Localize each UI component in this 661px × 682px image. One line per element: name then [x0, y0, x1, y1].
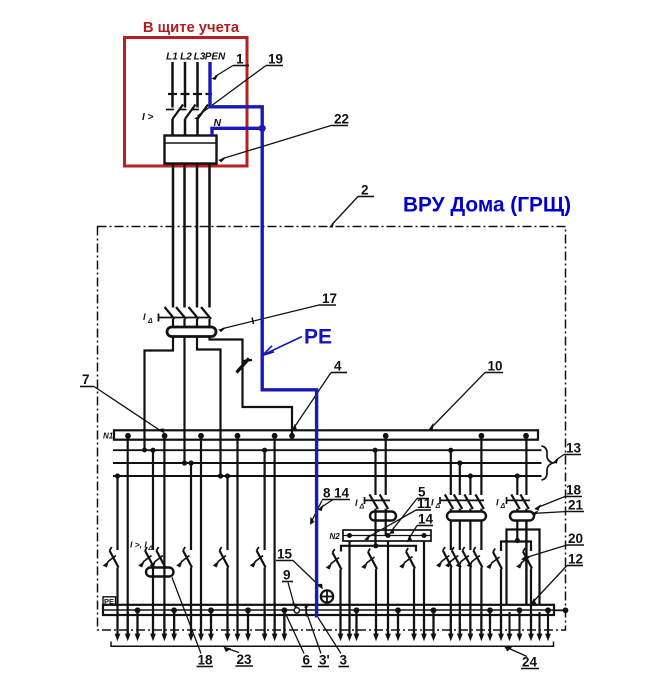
phase line L2: [113, 462, 542, 464]
feeder group 1 phase wire: [116, 476, 118, 634]
main RCD pole 3: [189, 307, 199, 319]
wire PEN blue riser: [210, 62, 317, 618]
disconnect tick L2: [181, 93, 190, 95]
feeder group 2 PE wire: [173, 610, 175, 634]
PE bond to cabinet: [554, 607, 568, 613]
feeder group 5 PE wire: [283, 610, 285, 634]
group E sub-panel enclosure: [507, 530, 540, 606]
callout 9: [282, 568, 297, 610]
svg-text:L2: L2: [180, 52, 192, 63]
svg-text:22: 22: [334, 112, 349, 127]
group D wires down: [451, 568, 482, 635]
callout 6: [286, 614, 313, 668]
svg-text:17: 17: [322, 291, 337, 306]
terminal circle node 9: [294, 608, 299, 613]
callout 11: [364, 496, 432, 541]
N2 feeder 1 N wire: [348, 541, 350, 634]
group N2 RCD pole 2: [380, 494, 389, 509]
svg-text:20: 20: [568, 531, 583, 546]
node label PE: [304, 326, 332, 349]
svg-text:18: 18: [566, 483, 582, 498]
callout 14b: [407, 512, 434, 543]
N2 feeder 1 PE wire: [355, 610, 357, 634]
group E RCD phase wire: [516, 476, 518, 512]
svg-text:15: 15: [277, 547, 293, 562]
svg-text:13: 13: [566, 441, 582, 456]
breaker QF pole 3: [191, 105, 208, 120]
svg-text:9: 9: [283, 568, 291, 583]
svg-text:Δ: Δ: [359, 504, 365, 511]
feeder group 3 phase wire: [190, 463, 192, 634]
junction dots on N1: [125, 433, 529, 439]
busbar PE label box: [103, 597, 116, 606]
feeder group 2 RCD core oval: [146, 568, 174, 577]
energy meter Wh: [165, 136, 217, 164]
wire funnel L3: [197, 337, 223, 479]
group E output wires: [501, 569, 531, 635]
bonding tick node 3p: [304, 605, 308, 617]
callout 21: [531, 498, 584, 517]
node label L3: [194, 52, 206, 63]
group E RCD poles: [511, 494, 529, 509]
group E phase split branches: [501, 542, 531, 552]
N2 feeder 1 phase wire: [339, 570, 341, 635]
callout 17: [218, 291, 337, 332]
busbar PE: [103, 605, 554, 615]
N2 feeder 2 breaker: [361, 549, 377, 570]
phase line L3: [113, 475, 542, 477]
group N2 RCD label Id: [355, 498, 365, 511]
svg-text:11: 11: [417, 496, 432, 511]
disconnect tick L3: [193, 93, 202, 95]
brace for phase group: [542, 446, 554, 480]
callout 12: [530, 552, 583, 606]
callout 18b: [534, 483, 582, 511]
svg-text:21: 21: [568, 498, 584, 513]
svg-text:ВРУ Дома (ГРЩ): ВРУ Дома (ГРЩ): [403, 194, 571, 217]
feeder group 2 breaker pole 2: [150, 547, 166, 568]
node label N2: [330, 532, 341, 541]
main RCD pole 2: [176, 307, 186, 319]
feeder group 4 phase wire: [226, 476, 228, 634]
feeder group 2 N wire: [163, 433, 165, 634]
feeder group 2 phase wire: [152, 450, 154, 634]
busbar N1: [114, 430, 538, 439]
group N2 RCD pole 1: [370, 494, 379, 509]
group N2 RCD phase wire: [373, 450, 378, 548]
group D breakers: [436, 547, 482, 568]
feeder group 5 phase wire: [264, 450, 266, 634]
feeder group 5 N wire: [274, 433, 276, 634]
metering panel red enclosure: [125, 38, 248, 167]
feeder group 1 breaker: [103, 547, 119, 568]
wire L2 incoming: [184, 62, 187, 108]
feeder group 3 breaker: [176, 547, 192, 568]
callout 3: [318, 618, 349, 668]
main RCD trip bar: [159, 314, 211, 322]
group E RCD core oval: [510, 512, 534, 521]
PE pointer arrow blue: [263, 337, 303, 356]
svg-text:Δ: Δ: [147, 318, 153, 325]
svg-text:2: 2: [361, 183, 369, 198]
group D RCD core oval: [447, 512, 486, 521]
wire N branch blue: [212, 128, 262, 135]
callout 15: [276, 547, 323, 590]
svg-text:Δ: Δ: [500, 503, 506, 510]
feeder group 3 PE wire: [210, 610, 212, 634]
N2 feeder 3 N wire: [423, 541, 425, 634]
svg-text:18: 18: [198, 653, 214, 668]
wire funnel L1: [142, 337, 173, 453]
svg-text:19: 19: [268, 52, 283, 67]
svg-text:14: 14: [418, 512, 434, 527]
feeder group 2 label I>,Id: [130, 540, 154, 553]
wire L1 incoming: [171, 62, 174, 108]
group D wires to core: [451, 509, 482, 512]
callout 7: [80, 372, 165, 433]
N2 feeder 2 phase wire: [375, 569, 377, 634]
N2 feeder 2 PE wire: [397, 610, 399, 634]
group D 3ph RCD wires: [451, 433, 482, 495]
svg-text:3: 3: [340, 653, 348, 668]
callout 14a: [318, 486, 350, 512]
group N2 RCD core oval: [370, 512, 396, 521]
N2 feeder 2 N wire: [387, 541, 389, 634]
group D RCD poles: [445, 494, 484, 509]
svg-text:24: 24: [522, 655, 538, 670]
junction PEN split: [259, 125, 266, 132]
callout 1: [212, 52, 250, 81]
callout 4: [291, 359, 347, 432]
N2 feeder 3 phase wire: [413, 569, 415, 635]
svg-text:23: 23: [237, 652, 253, 667]
main RCD label Idelta: [143, 312, 153, 325]
group D trip bar: [440, 497, 484, 504]
disconnect tick L1: [168, 93, 177, 95]
outgoing cables bracket: [111, 642, 554, 647]
breaker QF label I>: [142, 112, 154, 123]
callout 18: [172, 578, 213, 668]
wire meter outputs to RCD: [173, 164, 210, 308]
busbar N2: [343, 530, 431, 541]
outgoing circuit arrows: [115, 612, 551, 641]
group E breaker left: [486, 549, 502, 570]
svg-text:7: 7: [82, 372, 90, 387]
N2 feeder 3 breaker: [399, 548, 415, 569]
svg-text:PE: PE: [304, 326, 332, 349]
svg-text:1: 1: [236, 52, 244, 67]
group D label Id: [431, 498, 441, 511]
callout 19: [194, 52, 283, 120]
group D output wires: [451, 521, 482, 551]
node label L1: [166, 52, 178, 63]
group D PE wire: [489, 610, 491, 634]
group N2 RCD trip bar: [365, 497, 391, 504]
callout 22: [218, 112, 349, 163]
breaker QF pole 2: [179, 105, 196, 120]
feeder group 1 PE wire: [136, 610, 138, 634]
group E N wire down: [525, 521, 527, 606]
wire RCD to core: [173, 319, 210, 328]
feeder group 4 N wire: [236, 433, 238, 634]
callout 8: [310, 486, 333, 525]
svg-text:N1: N1: [103, 432, 114, 441]
main RCD pole 4: [201, 307, 211, 319]
group E label Id: [496, 498, 506, 511]
wire meter inputs: [173, 119, 198, 136]
group E phase wire to split: [515, 521, 520, 544]
callout 20: [521, 531, 584, 561]
cable slash mark: [237, 359, 253, 373]
group E breaker right: [516, 548, 532, 569]
group E RCD N wire: [525, 433, 527, 512]
junction dots on N2: [347, 533, 427, 538]
svg-text:8: 8: [323, 486, 331, 501]
main RCD core oval: [167, 327, 216, 337]
label: VRU title: [403, 194, 571, 217]
svg-text:6: 6: [303, 653, 311, 668]
feeder group 5 breaker: [250, 547, 266, 568]
junction dots on phase lines: [115, 448, 520, 479]
callout 24: [504, 646, 539, 669]
feeder group 3 N wire: [200, 433, 202, 634]
main RCD pole 1: [165, 307, 175, 319]
svg-text:L1: L1: [166, 52, 178, 63]
N2 feeder 1 breaker: [326, 549, 342, 570]
svg-text:PEN: PEN: [205, 52, 226, 63]
svg-text:N2: N2: [330, 532, 341, 541]
VRU cabinet dashed enclosure: [98, 227, 566, 631]
svg-text:14: 14: [334, 486, 350, 501]
junction dots on PE bar: [135, 607, 551, 613]
callout 2: [329, 183, 374, 228]
callout 3p: [307, 613, 330, 668]
feeder group 2 breaker pole 1: [138, 547, 154, 568]
svg-text:I >, I: I >, I: [130, 540, 147, 550]
callout 5: [389, 485, 429, 534]
group N2 RCD N wire: [385, 433, 387, 536]
node label L2: [180, 52, 192, 63]
breaker QF pole 1: [166, 105, 183, 120]
node label PEN: [205, 52, 226, 63]
label: metering panel title: [143, 20, 240, 36]
callout 23: [224, 647, 254, 667]
phase line L1: [113, 449, 542, 451]
svg-text:4: 4: [334, 359, 342, 374]
svg-text:I >: I >: [142, 112, 154, 123]
node label N1: [103, 432, 114, 441]
main earthing terminal symbol: [321, 590, 333, 602]
callout 13: [553, 441, 582, 464]
N2 feeder 3 PE wire: [432, 610, 434, 634]
svg-text:10: 10: [488, 359, 503, 374]
node label N: [214, 117, 222, 129]
disconnect tick PEN: [206, 93, 213, 95]
wire funnel N: [210, 337, 293, 434]
group E trip bar: [507, 497, 531, 504]
svg-text:В щите учета: В щите учета: [143, 20, 240, 36]
callout 10: [429, 359, 503, 430]
group N2 phase distribution line: [341, 546, 416, 552]
wire L3 incoming: [196, 62, 199, 108]
svg-text:Δ: Δ: [435, 503, 441, 510]
svg-text:12: 12: [568, 552, 583, 567]
feeder group 1 N wire: [127, 433, 129, 634]
wire funnel L2: [182, 337, 187, 466]
svg-text:3': 3': [319, 653, 330, 668]
feeder group 4 breaker: [213, 547, 229, 568]
feeder group 4 PE wire: [247, 610, 249, 634]
